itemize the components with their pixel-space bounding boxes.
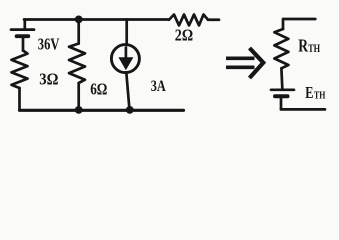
battery 36V <box>23 20 26 29</box>
wire current source bottom <box>126 72 129 110</box>
wire 6ohm to bottom <box>77 83 80 110</box>
svg-text:TH: TH <box>308 43 320 55</box>
resistor R 6ohm <box>69 44 85 84</box>
svg-text:E: E <box>305 83 313 102</box>
current source arrow <box>125 48 128 59</box>
wire 3ohm to bottom <box>18 88 21 110</box>
implication arrow <box>226 48 263 78</box>
svg-text:6Ω: 6Ω <box>90 79 107 98</box>
wire RTH to battery <box>280 68 284 88</box>
wire top <box>283 19 315 29</box>
wire bottom <box>281 108 325 111</box>
wire branch 6ohm top <box>77 19 80 43</box>
wire bottom bus <box>20 109 184 112</box>
wire top bus left circuit <box>24 18 169 21</box>
node dot top <box>75 16 83 24</box>
svg-text:2Ω: 2Ω <box>175 25 193 44</box>
wire top right segment after 2-ohm <box>208 18 219 21</box>
svg-text:R: R <box>298 35 308 55</box>
battery ETH <box>271 88 294 91</box>
svg-text:TH: TH <box>314 90 325 101</box>
wire current source top <box>125 20 128 46</box>
svg-text:3A: 3A <box>151 78 166 95</box>
thevenin circuit <box>271 19 325 109</box>
resistor RTH <box>274 29 288 68</box>
node dot bottom left <box>75 106 83 114</box>
svg-text:3Ω: 3Ω <box>39 70 58 89</box>
node dot bottom right <box>126 106 134 114</box>
current source I 3A circle <box>111 45 139 73</box>
resistor R 3ohm <box>12 51 28 89</box>
resistor R 2ohm <box>169 15 208 26</box>
svg-text:36V: 36V <box>38 34 60 53</box>
current source arrowhead <box>118 57 133 70</box>
